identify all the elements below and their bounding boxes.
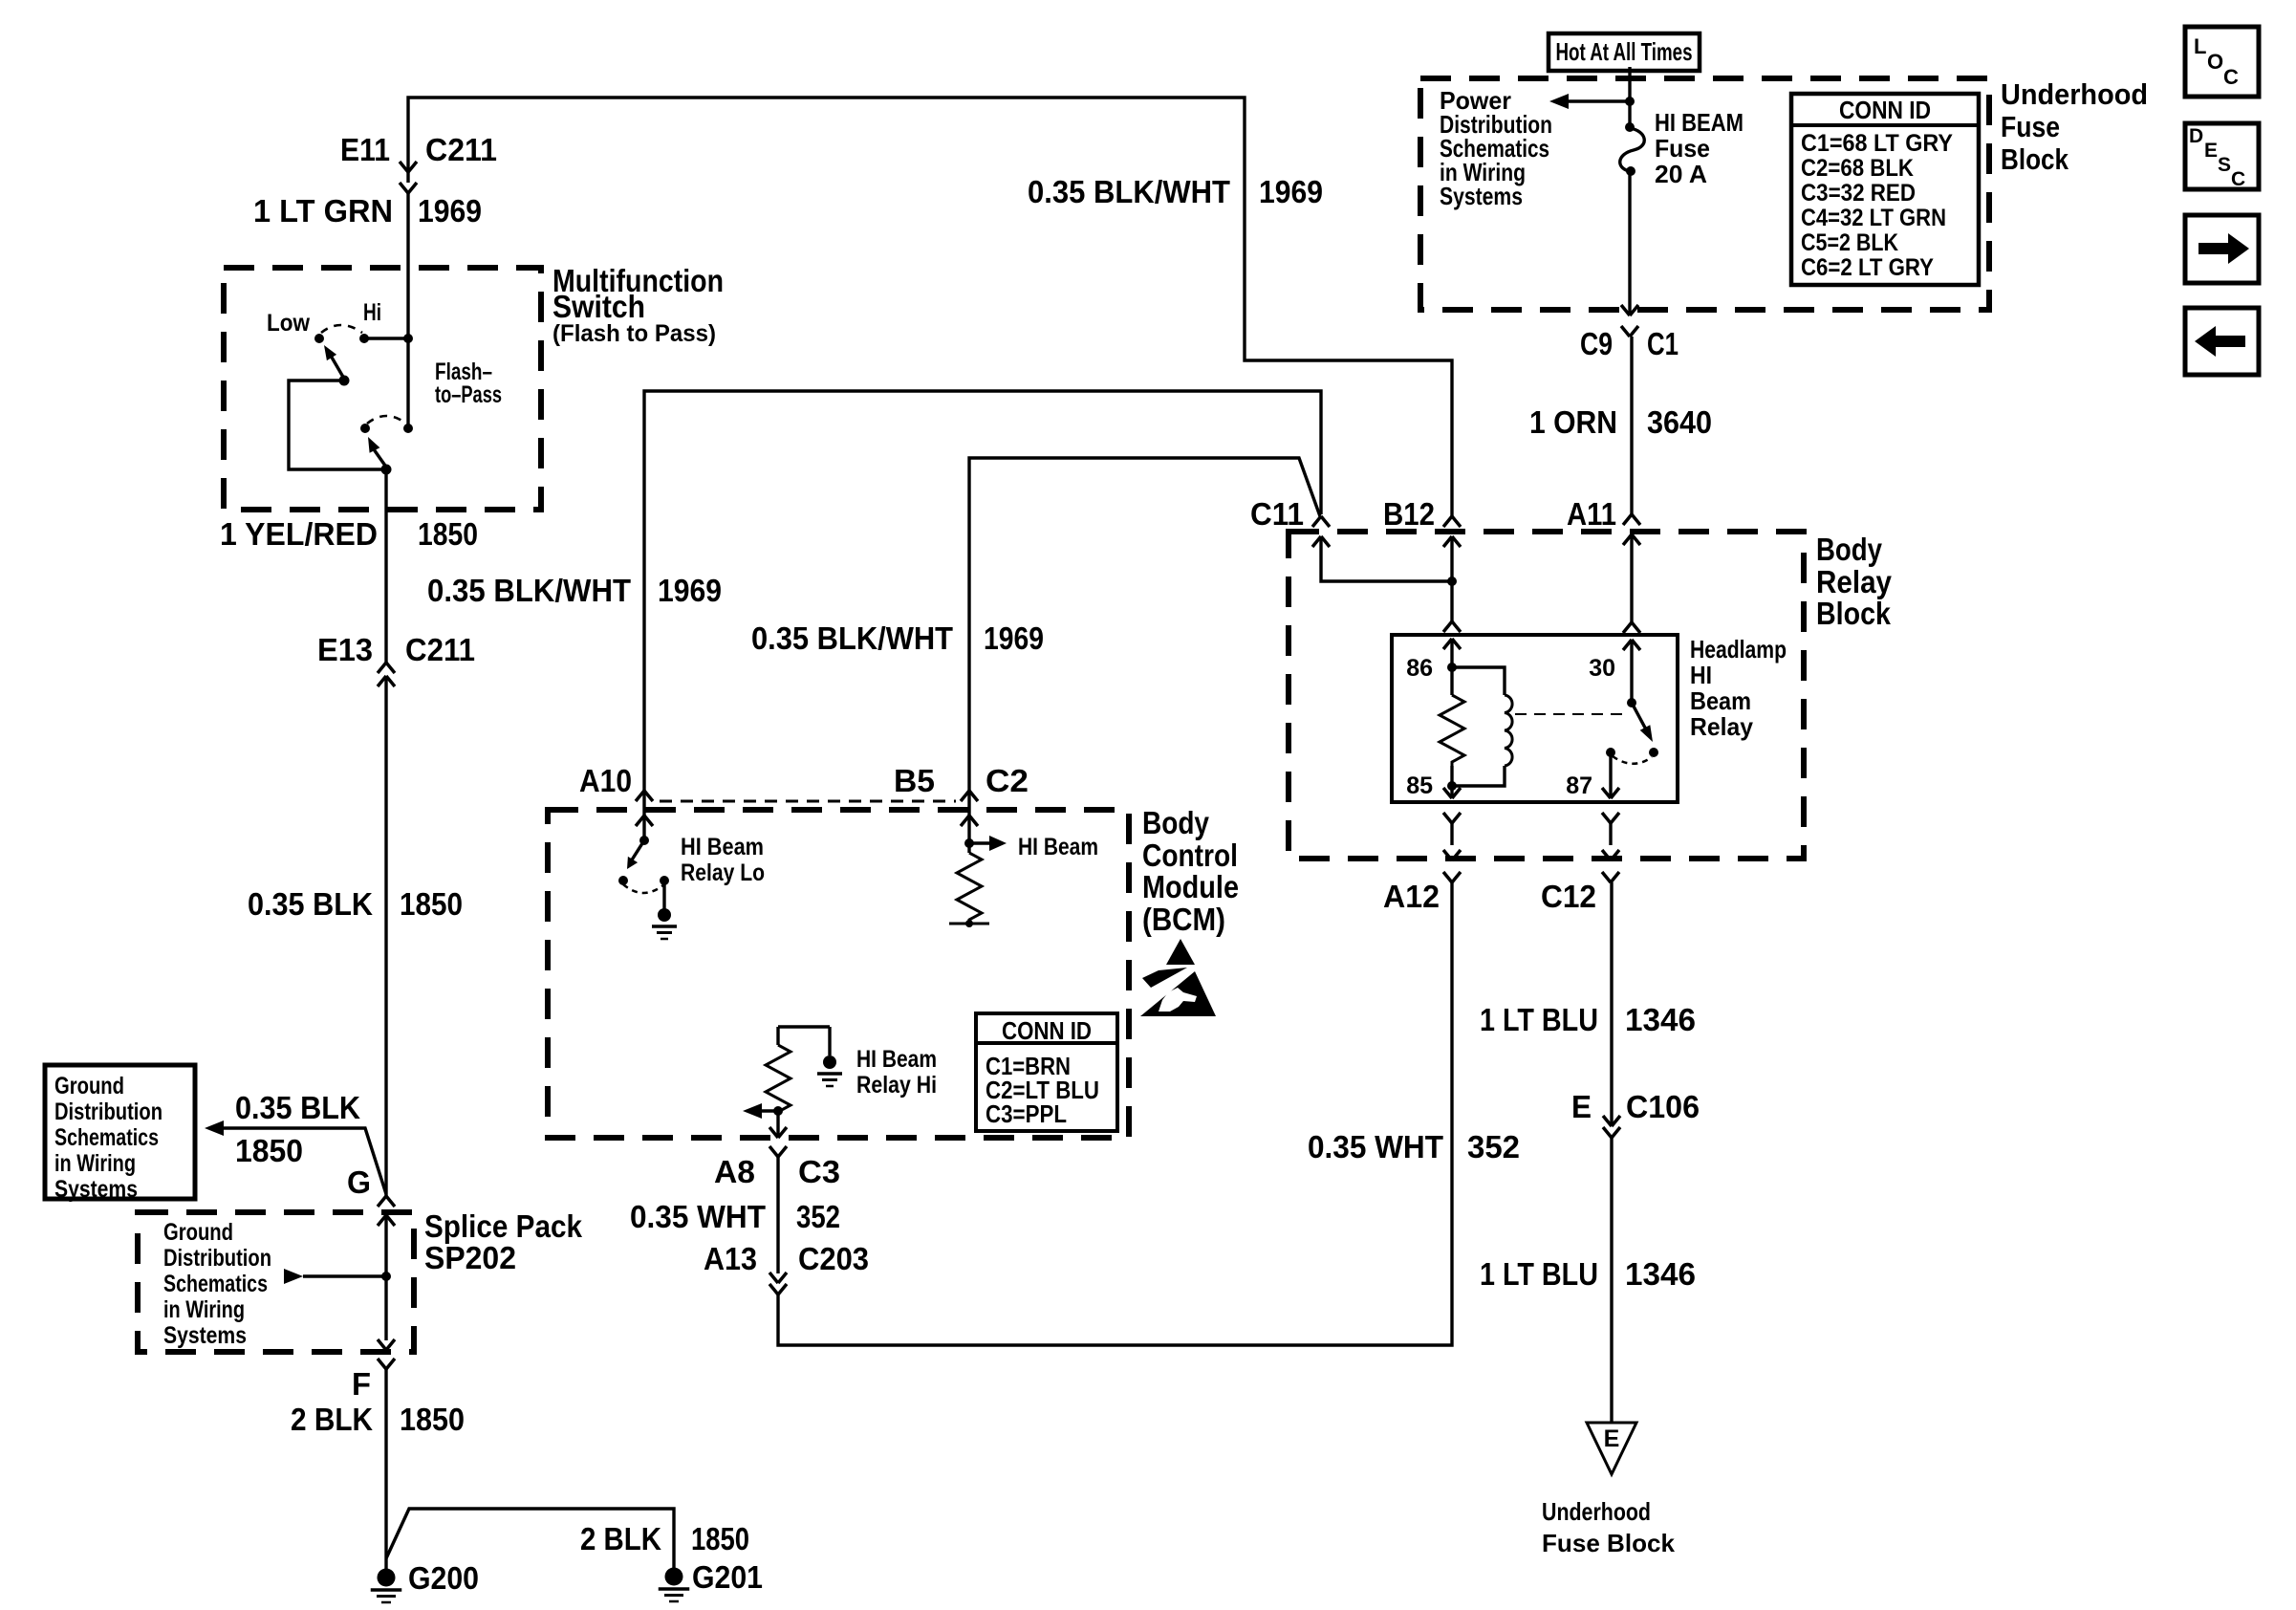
label circuit 1969 (B5)	[984, 620, 1044, 656]
svg-text:20 A: 20 A	[1655, 160, 1707, 188]
label circuit 1346 (lower)	[1625, 1256, 1696, 1292]
label Multifunction Switch	[552, 263, 724, 347]
wire C11 to B12 junction	[1321, 536, 1452, 581]
relay coil top feed	[1452, 667, 1505, 695]
svg-text:Control: Control	[1142, 838, 1238, 873]
wire SP202 branch	[303, 1274, 386, 1277]
wire C12 to C106	[1610, 882, 1613, 1126]
svg-text:Splice Pack: Splice Pack	[424, 1208, 583, 1244]
svg-text:E13: E13	[317, 632, 373, 667]
svg-text:HI Beam: HI Beam	[1018, 834, 1098, 860]
svg-text:0.35 BLK: 0.35 BLK	[235, 1090, 360, 1125]
label C1	[1647, 326, 1679, 361]
svg-text:C1=68 LT GRY: C1=68 LT GRY	[1801, 130, 1953, 157]
label circuit 1850 (YEL/RED)	[418, 516, 478, 552]
label Flash-	[435, 359, 492, 385]
node SP202 junction	[381, 1272, 391, 1281]
connector E13/C211	[378, 663, 395, 686]
label wire 0.35 BLK (branch)	[235, 1090, 360, 1125]
svg-text:B5: B5	[894, 763, 935, 798]
svg-text:87: 87	[1566, 772, 1592, 799]
ground G200	[371, 1569, 402, 1603]
svg-text:Switch: Switch	[552, 289, 645, 324]
wire E13 to splice pack G	[384, 676, 387, 1196]
label Headlamp HI Beam Relay	[1690, 635, 1787, 741]
bcm internal rail tick	[949, 920, 989, 927]
label C11	[1250, 496, 1304, 532]
node flash-to-pass right contact	[403, 424, 413, 433]
label wire 0.35 WHT (A12)	[1308, 1129, 1443, 1164]
svg-text:C3: C3	[798, 1154, 840, 1189]
svg-text:85: 85	[1406, 772, 1433, 799]
label wire 0.35 BLK/WHT (top)	[1028, 174, 1230, 209]
svg-text:CONN ID: CONN ID	[1002, 1016, 1092, 1045]
svg-text:C9: C9	[1580, 326, 1613, 361]
underhood fuse block dashed box	[1420, 78, 1989, 310]
svg-text:C6=2 LT GRY: C6=2 LT GRY	[1801, 254, 1934, 281]
label Body Relay Block	[1816, 532, 1893, 631]
terminal E triangle underhood fuse block	[1587, 1423, 1636, 1474]
svg-text:CONN ID: CONN ID	[1839, 96, 1931, 124]
svg-text:A8: A8	[714, 1154, 755, 1189]
label G	[347, 1164, 371, 1200]
svg-text:1850: 1850	[691, 1521, 749, 1556]
label F	[352, 1366, 371, 1402]
svg-text:Relay Hi: Relay Hi	[856, 1072, 937, 1099]
label A8	[714, 1154, 755, 1189]
relay coil L1	[1505, 695, 1512, 766]
node flash-to-pass pivot	[381, 465, 392, 475]
connector A13/C203	[769, 1273, 787, 1295]
relay pin 86	[1443, 621, 1461, 667]
svg-text:0.35 BLK/WHT: 0.35 BLK/WHT	[1028, 174, 1230, 209]
relay box headlamp hi beam relay	[1392, 635, 1678, 802]
label circuit 3640	[1647, 404, 1712, 440]
label C2 (B5)	[986, 763, 1029, 798]
wire resistor bottom	[1450, 766, 1453, 786]
svg-text:0.35 BLK/WHT: 0.35 BLK/WHT	[427, 573, 631, 608]
node bcm relay-lo left contact	[618, 876, 628, 885]
svg-text:1 ORN: 1 ORN	[1529, 404, 1617, 440]
wire hi contact to feed	[364, 337, 408, 339]
svg-text:Relay: Relay	[1816, 564, 1893, 599]
wire A11 to relay pin 30 chevron	[1630, 534, 1633, 622]
connector F exit splice pack	[378, 1339, 395, 1369]
svg-text:C11: C11	[1250, 496, 1304, 532]
svg-text:3640: 3640	[1647, 404, 1712, 440]
connector C9/C1 exit underhood	[1621, 305, 1638, 337]
node dimmer low contact	[314, 334, 324, 343]
label circuit 1850 (G201)	[691, 1521, 749, 1556]
svg-text:SP202: SP202	[424, 1240, 516, 1275]
label wire 0.35 BLK (E13)	[248, 886, 373, 922]
svg-text:HI Beam: HI Beam	[681, 834, 764, 860]
svg-text:C1: C1	[1647, 326, 1679, 361]
node flash-to-pass left contact	[360, 424, 370, 433]
arrow from ground distribution into SP202	[284, 1269, 303, 1284]
label A11	[1567, 496, 1616, 532]
ground distribution schematics box	[45, 1065, 195, 1203]
resistor R2 hi beam sense	[957, 853, 982, 924]
label C211 (E11)	[425, 132, 497, 167]
node relay-hi output junction	[773, 1106, 783, 1116]
dashed arc flash-to-pass throw	[367, 416, 406, 424]
connector B5 into BCM	[961, 791, 978, 826]
svg-text:Block: Block	[1816, 596, 1892, 631]
svg-text:2 BLK: 2 BLK	[580, 1521, 661, 1556]
svg-text:1850: 1850	[235, 1133, 303, 1168]
label Underhood Fuse Block (bottom)	[1542, 1497, 1676, 1557]
wire hi beam arrow	[969, 841, 991, 844]
svg-text:A12: A12	[1383, 879, 1440, 914]
label circuit 1969 (top)	[1259, 174, 1323, 209]
wire hot feed vertical	[1628, 67, 1631, 127]
svg-text:E: E	[1571, 1089, 1592, 1124]
label to-Pass	[435, 381, 502, 408]
node dimmer hi contact	[359, 334, 369, 343]
svg-text:(Flash to Pass): (Flash to Pass)	[552, 320, 716, 347]
bcm relay-lo ground	[652, 881, 677, 939]
power feed label box (Hot At All Times)	[1549, 33, 1700, 71]
svg-text:Underhood: Underhood	[1542, 1497, 1651, 1526]
relay pin 85	[1443, 786, 1461, 823]
svg-text:Schematics: Schematics	[163, 1271, 268, 1297]
nav box LOC	[2185, 27, 2259, 97]
bcm relay-lo blade	[627, 840, 644, 869]
connector G into splice pack	[378, 1196, 395, 1226]
wire B5 pin to hi beam node	[967, 816, 970, 853]
label circuit 1850 (branch)	[235, 1133, 303, 1168]
svg-text:1969: 1969	[418, 193, 482, 228]
label C3 (A8)	[798, 1154, 840, 1189]
label wire 2 BLK (G201)	[580, 1521, 661, 1556]
connector E11/C211	[400, 162, 417, 193]
wire dimmer pivot to flash pivot	[289, 381, 386, 469]
svg-text:Systems: Systems	[163, 1322, 247, 1349]
svg-text:0.35 WHT: 0.35 WHT	[630, 1199, 766, 1234]
svg-text:G201: G201	[692, 1559, 763, 1595]
wire relay-hi to A8	[776, 1111, 779, 1138]
svg-text:Body: Body	[1816, 532, 1883, 567]
wire flash-to-pass output	[384, 469, 387, 663]
svg-text:Distribution: Distribution	[54, 1099, 162, 1125]
relay coil bottom return	[1452, 766, 1505, 786]
nav box prev arrow	[2185, 308, 2259, 375]
label HI Beam Relay Hi	[856, 1046, 937, 1099]
svg-text:S: S	[2218, 154, 2231, 176]
svg-text:A10: A10	[579, 763, 632, 798]
label wire 1 LT GRN	[253, 193, 393, 228]
wire 1 ORN fuse output to A11	[1630, 337, 1633, 514]
svg-text:352: 352	[796, 1199, 840, 1234]
label E11	[340, 132, 390, 167]
wire hi beam feed top	[408, 98, 1452, 516]
dashed arc dimmer throw	[321, 325, 362, 333]
svg-text:Distribution: Distribution	[163, 1245, 271, 1272]
ESD sensitive device symbol	[1140, 939, 1216, 1016]
body relay block dashed box	[1289, 532, 1804, 859]
wire A10 to C11	[644, 391, 1321, 816]
note Power Distribution Schematics in Wiring Systems	[1440, 86, 1552, 210]
svg-text:O: O	[2207, 50, 2223, 74]
node hi beam output junction	[964, 838, 974, 848]
svg-text:C2: C2	[986, 763, 1029, 798]
svg-text:A13: A13	[704, 1241, 757, 1276]
label circuit 1850 (E13)	[400, 886, 463, 922]
connector A8/C3 exit BCM	[769, 1127, 787, 1157]
svg-text:0.35 WHT: 0.35 WHT	[1308, 1129, 1443, 1164]
connector C12 exit body relay block	[1602, 823, 1619, 882]
label pin 30	[1589, 655, 1615, 682]
wire A12 to A13 junction	[778, 882, 1452, 1345]
label HI Beam (B5)	[1018, 834, 1098, 860]
connector E/C106	[1603, 1116, 1620, 1138]
svg-text:30: 30	[1589, 655, 1615, 682]
svg-text:1 LT BLU: 1 LT BLU	[1480, 1002, 1598, 1037]
conn id table underhood	[1791, 94, 1979, 285]
svg-text:Fuse: Fuse	[2001, 110, 2060, 143]
svg-text:in Wiring: in Wiring	[54, 1150, 136, 1177]
svg-text:1850: 1850	[400, 886, 463, 922]
label wire 0.35 BLK/WHT (A10)	[427, 573, 631, 608]
ground G201	[659, 1568, 690, 1602]
resistor R1 relay suppressor	[1440, 695, 1464, 766]
conn id table BCM	[976, 1013, 1117, 1131]
label Splice Pack SP202	[424, 1208, 583, 1275]
label wire 2 BLK (G200)	[291, 1402, 373, 1437]
label wire 1 YEL/RED	[220, 516, 378, 552]
resistor R3 relay-hi	[766, 1045, 791, 1112]
connector B12 into body relay block	[1443, 516, 1461, 547]
svg-text:0.35 BLK: 0.35 BLK	[248, 886, 373, 922]
svg-text:C5=2 BLK: C5=2 BLK	[1801, 229, 1898, 256]
wire A8 to A13	[776, 1157, 779, 1273]
dashed arc bcm relay-lo throw	[623, 884, 664, 893]
label pin 85	[1406, 772, 1433, 799]
svg-text:1850: 1850	[418, 516, 478, 552]
bcm relay-hi ground	[817, 1055, 842, 1086]
label pin 87	[1566, 772, 1592, 799]
label C211 (E13)	[405, 632, 475, 667]
wire G to F inside SP202	[384, 1215, 387, 1340]
svg-text:86: 86	[1406, 655, 1433, 682]
svg-text:Hi: Hi	[363, 299, 381, 326]
wire resistor top	[1450, 667, 1453, 695]
label Low	[267, 310, 310, 337]
svg-text:G200: G200	[408, 1560, 479, 1596]
wire power distribution branch	[1567, 99, 1630, 102]
connector A10 into BCM	[636, 791, 653, 826]
flash-to-pass blade	[368, 437, 385, 466]
label C9	[1580, 326, 1613, 361]
svg-text:C2=68 BLK: C2=68 BLK	[1801, 155, 1914, 182]
arrow relay-hi output	[743, 1103, 762, 1119]
wire relay-hi arrow	[759, 1109, 778, 1112]
svg-text:A11: A11	[1567, 496, 1616, 532]
label Hi	[363, 299, 381, 326]
arrow HI Beam output	[989, 836, 1007, 851]
node relay switch pivot	[1627, 698, 1636, 707]
wire branch to G201	[386, 1509, 674, 1569]
nav box DESC	[2185, 123, 2259, 190]
label circuit 352 (A8)	[796, 1199, 840, 1234]
svg-text:Systems: Systems	[1440, 182, 1523, 210]
label wire 1 ORN	[1529, 404, 1617, 440]
relay pin 87	[1602, 752, 1619, 823]
svg-text:HI Beam: HI Beam	[856, 1046, 937, 1073]
svg-text:C: C	[2223, 65, 2239, 89]
label circuit 1346 (upper)	[1625, 1002, 1696, 1037]
conn id entries underhood	[1801, 130, 1953, 281]
label circuit 1969 (A10)	[658, 573, 722, 608]
svg-text:C203: C203	[798, 1241, 869, 1276]
wire B12 to relay pin 86	[1450, 536, 1453, 621]
svg-text:1346: 1346	[1625, 1002, 1696, 1037]
wire A10 pin to pivot	[642, 816, 645, 840]
svg-text:E11: E11	[340, 132, 390, 167]
svg-text:1969: 1969	[984, 620, 1044, 656]
svg-text:E: E	[1604, 1425, 1620, 1452]
svg-text:F: F	[352, 1366, 371, 1402]
arrow to power distribution schematics	[1549, 94, 1569, 109]
svg-text:Underhood: Underhood	[2001, 77, 2148, 111]
arrow to ground distribution	[205, 1120, 224, 1136]
label circuit 1969 (E11)	[418, 193, 482, 228]
svg-text:Body: Body	[1142, 805, 1210, 840]
svg-text:G: G	[347, 1164, 371, 1200]
svg-text:in Wiring: in Wiring	[163, 1296, 245, 1323]
svg-text:C12: C12	[1541, 879, 1596, 914]
relay pin 30 entry	[1623, 622, 1640, 703]
connector C11 into body relay block	[1312, 516, 1330, 547]
svg-text:Relay: Relay	[1690, 712, 1754, 741]
label A10	[579, 763, 632, 798]
node bcm relay-lo right contact	[660, 876, 669, 885]
svg-text:D: D	[2189, 125, 2203, 147]
svg-text:1 LT GRN: 1 LT GRN	[253, 193, 393, 228]
label Underhood Fuse Block (top right)	[2001, 77, 2148, 176]
svg-text:C4=32 LT GRN: C4=32 LT GRN	[1801, 205, 1946, 231]
svg-text:L: L	[2194, 34, 2206, 58]
node relay coil bottom junction	[1447, 781, 1457, 791]
note ground distribution in splice pack	[163, 1219, 271, 1349]
label Body Control Module (BCM)	[1142, 805, 1239, 937]
label wire 1 LT BLU (lower)	[1480, 1256, 1598, 1292]
svg-text:C211: C211	[425, 132, 497, 167]
label C12	[1541, 879, 1596, 914]
svg-text:C3=PPL: C3=PPL	[986, 1099, 1067, 1128]
connector A11 into body relay block	[1623, 514, 1640, 545]
svg-text:C3=32 RED: C3=32 RED	[1801, 180, 1916, 207]
label wire 1 LT BLU (upper)	[1480, 1002, 1598, 1037]
svg-text:Module: Module	[1142, 869, 1239, 904]
svg-text:1346: 1346	[1625, 1256, 1696, 1292]
svg-text:HI BEAM: HI BEAM	[1655, 108, 1744, 137]
label fuse HI BEAM Fuse 20 A	[1655, 108, 1744, 188]
splice pack dashed box	[138, 1212, 414, 1352]
svg-text:Low: Low	[267, 310, 310, 337]
label wire 0.35 BLK/WHT (B5)	[751, 620, 953, 656]
fuse F1 HI BEAM 20A	[1620, 122, 1645, 176]
svg-text:1850: 1850	[400, 1402, 465, 1437]
BCM connector separator dashed line	[660, 800, 956, 803]
svg-text:1969: 1969	[658, 573, 722, 608]
svg-text:1969: 1969	[1259, 174, 1323, 209]
svg-text:Systems: Systems	[54, 1176, 138, 1203]
resistor R3 relay-hi top wire	[778, 1027, 830, 1055]
svg-text:Schematics: Schematics	[54, 1124, 159, 1151]
svg-text:Relay Lo: Relay Lo	[681, 859, 765, 886]
svg-text:Headlamp: Headlamp	[1690, 635, 1787, 664]
node B12/C11 junction	[1447, 577, 1457, 586]
svg-text:Beam: Beam	[1690, 686, 1751, 715]
node relay NO contact	[1649, 748, 1658, 757]
node relay pin 87 contact	[1606, 748, 1615, 757]
svg-text:Fuse: Fuse	[1655, 134, 1710, 163]
conn id entries BCM	[986, 1052, 1099, 1128]
dashed arc relay contact throw	[1613, 756, 1652, 764]
wire C106 to underhood fuse block	[1610, 1138, 1613, 1423]
svg-text:1 YEL/RED: 1 YEL/RED	[220, 516, 378, 552]
label A12	[1383, 879, 1440, 914]
label G200	[408, 1560, 479, 1596]
label B12	[1383, 496, 1435, 532]
label C203	[798, 1241, 869, 1276]
svg-text:B12: B12	[1383, 496, 1435, 532]
node relay coil top junction	[1447, 663, 1457, 672]
relay switch blade	[1632, 703, 1653, 742]
label circuit 352 (A12)	[1467, 1129, 1520, 1164]
svg-text:Hot At All Times: Hot At All Times	[1556, 37, 1693, 66]
wire B5 to C11	[969, 458, 1320, 816]
svg-text:Fuse Block: Fuse Block	[1542, 1529, 1676, 1557]
wire ground distribution branch	[222, 1128, 386, 1194]
svg-text:1 LT BLU: 1 LT BLU	[1480, 1256, 1598, 1292]
svg-text:Ground: Ground	[163, 1219, 233, 1246]
label C106	[1626, 1089, 1700, 1124]
svg-text:Ground: Ground	[54, 1073, 124, 1099]
label E13	[317, 632, 373, 667]
label wire 0.35 WHT (A8)	[630, 1199, 766, 1234]
svg-text:HI: HI	[1690, 661, 1712, 689]
svg-text:C211: C211	[405, 632, 475, 667]
svg-text:C106: C106	[1626, 1089, 1700, 1124]
svg-text:to–Pass: to–Pass	[435, 381, 502, 408]
bcm relay-lo switch pivot	[639, 836, 649, 845]
svg-text:352: 352	[1467, 1129, 1520, 1164]
multifunction switch dashed box	[224, 268, 541, 510]
label pin 86	[1406, 655, 1433, 682]
label E	[1571, 1089, 1592, 1124]
svg-text:E: E	[2204, 140, 2218, 162]
relay actuation dashed link	[1515, 713, 1624, 715]
wire dimmer feed	[406, 193, 409, 428]
BCM dashed box	[548, 810, 1129, 1138]
node dimmer junction	[403, 334, 413, 343]
svg-text:0.35 BLK/WHT: 0.35 BLK/WHT	[751, 620, 953, 656]
label A13	[704, 1241, 757, 1276]
svg-text:(BCM): (BCM)	[1142, 902, 1225, 937]
svg-text:2 BLK: 2 BLK	[291, 1402, 373, 1437]
wire F to G200	[384, 1369, 387, 1569]
dimmer switch blade	[324, 345, 344, 379]
wire fuse to C9	[1628, 171, 1631, 315]
node power junction	[1625, 97, 1635, 106]
node dimmer blade pivot	[339, 376, 350, 386]
label circuit 1850 (G200)	[400, 1402, 465, 1437]
nav box next arrow	[2185, 215, 2259, 283]
svg-text:Block: Block	[2001, 142, 2069, 176]
